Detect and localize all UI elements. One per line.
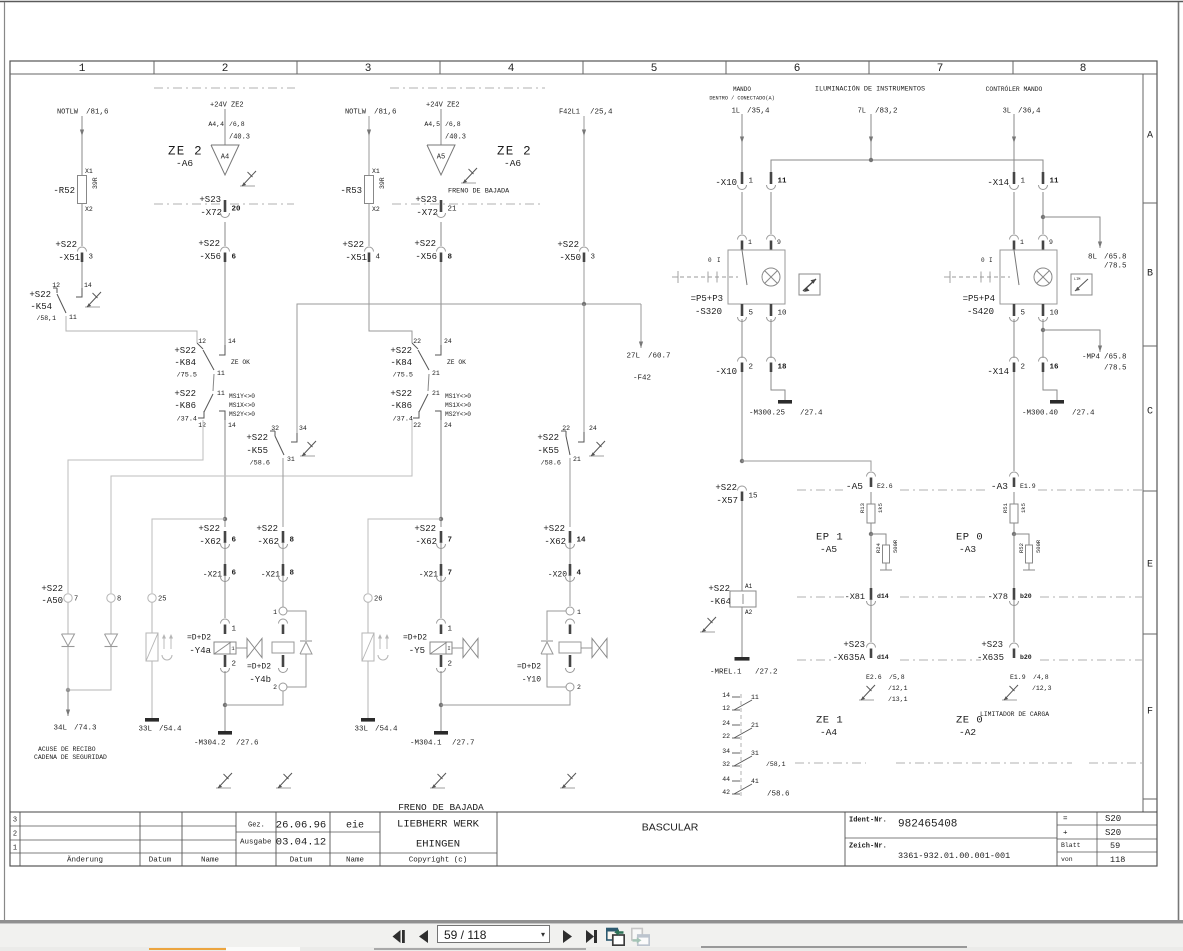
svg-text:E1.9: E1.9 <box>1020 483 1036 490</box>
svg-text:+S22: +S22 <box>246 433 268 443</box>
svg-text:-X21: -X21 <box>419 571 438 580</box>
diode V2 col1 <box>105 634 118 646</box>
svg-text:1: 1 <box>273 609 277 616</box>
svg-text:I: I <box>717 257 721 264</box>
svg-text:/27.2: /27.2 <box>755 669 778 677</box>
wire socket25 to suppressor <box>151 602 153 633</box>
wire 7L to bus160 <box>870 114 872 160</box>
svg-text:+S22: +S22 <box>198 239 220 249</box>
svg-text:+24V ZE2: +24V ZE2 <box>210 101 244 109</box>
svg-text:500R: 500R <box>892 539 899 553</box>
svg-text:/81,6: /81,6 <box>86 109 109 117</box>
wire col5 X62-X20 <box>569 542 571 564</box>
svg-text:/83,2: /83,2 <box>875 108 898 116</box>
svg-text:-X635A: -X635A <box>833 653 866 663</box>
svg-text:Zeich-Nr.: Zeich-Nr. <box>849 842 887 850</box>
svg-text:A2: A2 <box>745 609 753 616</box>
wire col4 X72 to X56 <box>440 222 442 246</box>
svg-text:9: 9 <box>777 239 781 246</box>
svg-text:-K64: -K64 <box>709 597 731 607</box>
svg-text:E: E <box>1147 559 1153 570</box>
svg-text:21: 21 <box>751 722 759 729</box>
title block verticals <box>19 812 21 866</box>
svg-text:-A6: -A6 <box>504 158 521 169</box>
svg-text:+S22: +S22 <box>55 240 77 250</box>
svg-text:R52: R52 <box>1018 543 1025 553</box>
svg-text:41: 41 <box>751 778 759 785</box>
svg-text:b20: b20 <box>1020 654 1032 661</box>
svg-text:14: 14 <box>722 692 730 699</box>
svg-text:21: 21 <box>432 390 440 397</box>
svg-text:5: 5 <box>651 63 658 75</box>
svg-text:31: 31 <box>287 456 295 463</box>
svg-text:-A3: -A3 <box>959 544 976 555</box>
svg-text:5: 5 <box>749 310 754 318</box>
release symbol bottom col4 <box>430 787 445 789</box>
wire S320-5 to X10-2 <box>741 319 743 358</box>
svg-text:1: 1 <box>79 63 86 75</box>
svg-text:34: 34 <box>299 425 307 432</box>
svg-text:Name: Name <box>201 857 219 865</box>
diode loop Y10 <box>547 611 566 640</box>
svg-text:ZE OK: ZE OK <box>447 359 466 366</box>
svg-text:2: 2 <box>232 661 237 669</box>
svg-text:33L: 33L <box>138 726 152 734</box>
resistor R24 branch <box>871 534 886 545</box>
svg-text:/12,1: /12,1 <box>888 685 908 692</box>
wire X81 to X635A <box>870 599 872 642</box>
wire X14-11 to S420 <box>1042 192 1044 234</box>
lamp in S420 <box>1034 268 1052 286</box>
svg-text:-MREL.1: -MREL.1 <box>710 669 742 677</box>
valve symbol Y5 <box>452 647 463 649</box>
svg-text:A: A <box>1147 130 1153 141</box>
svg-text:7: 7 <box>937 63 944 75</box>
svg-text:-K86: -K86 <box>390 401 412 411</box>
wire K54 pin11 to K84 col2 <box>66 316 197 343</box>
wire col2 X72 to X56 <box>224 222 226 246</box>
svg-text:24: 24 <box>589 425 597 432</box>
svg-text:/12,3: /12,3 <box>1032 685 1052 692</box>
svg-text:/65.8: /65.8 <box>1104 354 1127 362</box>
svg-text:+S23: +S23 <box>843 640 865 650</box>
ground 33L col2 <box>145 718 159 722</box>
svg-text:/74.3: /74.3 <box>74 725 97 733</box>
valve Y10 socket 1 <box>566 607 574 615</box>
svg-text:21: 21 <box>432 370 440 377</box>
svg-text:LIEBHERR WERK: LIEBHERR WERK <box>397 819 480 831</box>
svg-text:18: 18 <box>778 364 788 372</box>
svg-text:A4: A4 <box>221 153 229 161</box>
svg-text:2: 2 <box>1021 364 1026 372</box>
svg-text:+S22: +S22 <box>174 346 196 356</box>
svg-text:Gez.: Gez. <box>248 821 265 829</box>
svg-text:12: 12 <box>198 338 206 345</box>
svg-text:34L: 34L <box>53 725 67 733</box>
wire junction to circle25 <box>152 519 225 593</box>
svg-text:EP 0: EP 0 <box>956 532 983 544</box>
svg-text:-Y5: -Y5 <box>409 646 425 656</box>
release symbol bottom col2 <box>216 787 231 789</box>
svg-text:Datum: Datum <box>149 857 172 865</box>
svg-text:7: 7 <box>74 595 78 603</box>
bus wire y304 <box>297 304 641 433</box>
svg-text:-M300.25: -M300.25 <box>749 410 786 418</box>
svg-text:A5: A5 <box>437 153 445 161</box>
svg-text:EHINGEN: EHINGEN <box>416 839 460 851</box>
wire col1 top <box>81 116 83 175</box>
svg-text:1k5: 1k5 <box>877 503 884 513</box>
svg-text:LIMITADOR DE CARGA: LIMITADOR DE CARGA <box>980 711 1049 718</box>
svg-text:R13: R13 <box>859 503 866 513</box>
svg-text:+24V ZE2: +24V ZE2 <box>426 101 460 109</box>
svg-text:E2.6: E2.6 <box>877 483 893 490</box>
title block rows left <box>10 825 236 827</box>
wire col3 X21 to Y4b <box>282 575 284 607</box>
svg-text:3: 3 <box>13 816 17 824</box>
ZE1 boundary dashdot row4 <box>795 762 866 764</box>
svg-text:=P5+P4: =P5+P4 <box>963 294 995 304</box>
wire col5 X50 to bus <box>583 262 585 304</box>
wire A50-7 to diode <box>67 602 69 634</box>
resistor R52b branch <box>1014 534 1029 545</box>
svg-text:Ausgabe: Ausgabe <box>240 839 272 847</box>
svg-text:Name: Name <box>346 857 364 865</box>
ground MREL.1 <box>735 657 750 661</box>
svg-text:X2: X2 <box>85 206 93 213</box>
svg-text:1k5: 1k5 <box>1020 503 1027 513</box>
svg-text:E1.9: E1.9 <box>1010 674 1026 681</box>
svg-text:/37.4: /37.4 <box>393 415 413 423</box>
svg-text:10: 10 <box>1050 310 1060 318</box>
svg-text:1: 1 <box>748 239 752 246</box>
svg-text:6: 6 <box>232 254 237 262</box>
release symbol bottom col3 <box>276 787 291 789</box>
connector S320 pin 5 <box>741 304 744 316</box>
svg-text:11: 11 <box>217 370 225 377</box>
wire K86 col2 pin12 to A50 <box>68 420 203 593</box>
svg-text:/54.4: /54.4 <box>375 726 398 734</box>
svg-text:MS1Y<>0: MS1Y<>0 <box>445 393 471 400</box>
svg-text:-A2: -A2 <box>959 727 976 738</box>
svg-text:/58.6: /58.6 <box>767 791 790 799</box>
svg-text:14: 14 <box>228 422 236 429</box>
svg-text:-A3: -A3 <box>991 481 1008 492</box>
frame column ticks <box>153 61 155 74</box>
wire X14-1 to S420 <box>1013 192 1015 234</box>
svg-text:9: 9 <box>1049 239 1053 246</box>
svg-text:8: 8 <box>117 595 121 603</box>
svg-text:-X62: -X62 <box>257 537 279 547</box>
svg-text:-Y4b: -Y4b <box>249 675 271 685</box>
svg-text:/65.8: /65.8 <box>1104 254 1127 262</box>
wire K55 col2 to X62 col3 <box>282 458 284 527</box>
connector X10 pin 11 <box>770 172 773 184</box>
wire col3 X62-X21 <box>282 542 284 564</box>
svg-text:6: 6 <box>794 63 801 75</box>
svg-text:59: 59 <box>1110 841 1120 851</box>
release symbol EP1 <box>859 699 874 701</box>
svg-text:ZE OK: ZE OK <box>231 359 250 366</box>
svg-text:FRENO DE BAJADA: FRENO DE BAJADA <box>398 802 484 813</box>
svg-text:03.04.12: 03.04.12 <box>276 837 326 849</box>
svg-text:CONTRÓLER MANDO: CONTRÓLER MANDO <box>986 84 1043 93</box>
svg-text:8: 8 <box>290 570 295 578</box>
svg-text:39R: 39R <box>92 177 99 189</box>
svg-text:MS1X<>0: MS1X<>0 <box>445 402 471 409</box>
svg-text:1L: 1L <box>732 107 740 115</box>
junction EP1 R24 <box>869 532 873 536</box>
svg-text:11: 11 <box>751 694 759 701</box>
ZE2 boundary dashdot mid col4 <box>392 203 544 205</box>
wire col2 X21 to Y4a <box>224 575 226 618</box>
indicator symbol S420 <box>1071 274 1092 295</box>
EP boundary dashdot row2 <box>797 596 845 598</box>
svg-text:+S22: +S22 <box>715 483 737 493</box>
ZE2 boundary dashdot top col2 <box>154 87 295 89</box>
svg-text:d14: d14 <box>877 593 889 600</box>
svg-text:-X50: -X50 <box>559 253 581 263</box>
svg-text:/75.5: /75.5 <box>393 371 413 379</box>
svg-text:22: 22 <box>722 733 730 740</box>
wire col3 X51-4 to K84 col4 <box>369 262 412 343</box>
wire Y5 to ground <box>440 671 442 731</box>
svg-text:8L: 8L <box>1088 254 1098 262</box>
svg-text:ZE 1: ZE 1 <box>816 715 843 727</box>
svg-text:eie: eie <box>346 819 364 831</box>
svg-text:15: 15 <box>749 493 759 501</box>
svg-text:/81,6: /81,6 <box>374 109 397 117</box>
EP boundary dashdot row1 <box>797 489 843 491</box>
svg-text:/58.6: /58.6 <box>541 459 561 467</box>
svg-text:25: 25 <box>158 595 166 603</box>
junction col2 X62 <box>223 517 227 521</box>
svg-text:-X10: -X10 <box>715 367 737 377</box>
wire col5 X20 to Y10 <box>569 575 571 606</box>
svg-text:ZE 2: ZE 2 <box>497 144 532 158</box>
svg-text:DENTRO / CONECTADO(A): DENTRO / CONECTADO(A) <box>709 95 774 101</box>
svg-text:14: 14 <box>84 282 92 289</box>
svg-text:22: 22 <box>413 422 421 429</box>
next page button <box>561 929 574 944</box>
svg-text:2: 2 <box>13 830 17 838</box>
svg-text:-A6: -A6 <box>176 158 193 169</box>
svg-text:-K55: -K55 <box>537 446 559 456</box>
svg-text:=D+D2: =D+D2 <box>187 634 211 643</box>
svg-text:=D+D2: =D+D2 <box>247 663 271 672</box>
svg-text:-X62: -X62 <box>544 537 566 547</box>
svg-text:-X62: -X62 <box>199 537 221 547</box>
svg-text:Ident-Nr.: Ident-Nr. <box>849 816 887 824</box>
connector S420 pin 10 <box>1042 304 1045 316</box>
svg-text:33L: 33L <box>354 726 368 734</box>
previous page button <box>417 929 430 944</box>
connector Y10 top <box>566 619 575 624</box>
svg-text:7: 7 <box>448 537 453 545</box>
wire col8 X14-2 to A3 <box>1013 372 1015 471</box>
wire col2 K86 to X62 <box>224 420 226 527</box>
valve Y10 socket 2 <box>566 683 574 691</box>
frame row ticks <box>1143 202 1157 204</box>
wire col5 top <box>583 116 585 246</box>
svg-text:-MP4: -MP4 <box>1082 354 1101 362</box>
svg-text:b20: b20 <box>1020 593 1032 600</box>
amplifier A4 <box>211 145 239 175</box>
wire suppressor to ground 33L col4 <box>367 661 369 718</box>
svg-text:14: 14 <box>577 537 587 545</box>
wire col2 X56 to K84 <box>224 262 226 345</box>
connector S320 pin 10 <box>770 304 773 316</box>
wire Y4a to ground <box>224 671 226 731</box>
svg-text:/27.6: /27.6 <box>236 740 259 748</box>
svg-text:+S22: +S22 <box>29 290 51 300</box>
svg-text:-K55: -K55 <box>246 446 268 456</box>
svg-text:4: 4 <box>376 254 381 262</box>
wire col1 X51 to K54 <box>81 262 83 288</box>
svg-text:31: 31 <box>751 750 759 757</box>
connector Y4b bottom <box>282 655 285 667</box>
junction col4 X62 <box>439 517 443 521</box>
wire junction to circle26 <box>368 519 441 593</box>
wire X10-2 down to junction <box>741 372 743 461</box>
svg-text:-X72: -X72 <box>416 208 438 218</box>
wire S420-10 to conn16 <box>1042 319 1044 358</box>
svg-text:/35,4: /35,4 <box>747 108 770 116</box>
svg-text:I: I <box>447 645 450 652</box>
svg-text:8: 8 <box>448 254 453 262</box>
wire K55 col5 to X62 <box>569 458 571 527</box>
svg-text:21: 21 <box>573 456 581 463</box>
svg-text:Datum: Datum <box>290 857 313 865</box>
svg-text:X1: X1 <box>85 168 93 175</box>
svg-text:-R52: -R52 <box>53 186 75 196</box>
svg-text:-A5: -A5 <box>820 544 837 555</box>
svg-text:-X51: -X51 <box>345 253 367 263</box>
svg-text:ZE 2: ZE 2 <box>168 144 203 158</box>
svg-text:10: 10 <box>778 310 788 318</box>
svg-text:22: 22 <box>413 338 421 345</box>
last page button <box>584 929 600 944</box>
wire Y10 to ground rail <box>441 691 570 705</box>
socket 25 <box>148 594 156 602</box>
svg-text:6: 6 <box>232 537 237 545</box>
svg-text:/25,4: /25,4 <box>590 109 613 117</box>
svg-text:-X62: -X62 <box>415 537 437 547</box>
svg-text:3: 3 <box>365 63 372 75</box>
svg-text:5: 5 <box>1021 310 1026 318</box>
svg-text:X2: X2 <box>372 206 380 213</box>
svg-text:ILUMINACIÓN DE INSTRUMENTOS: ILUMINACIÓN DE INSTRUMENTOS <box>815 83 925 93</box>
valve Y4b socket 1 <box>279 607 287 615</box>
svg-text:-Y4a: -Y4a <box>189 646 211 656</box>
svg-text:d14: d14 <box>877 654 889 661</box>
svg-text:S20: S20 <box>1105 814 1121 824</box>
switch S320 <box>738 235 747 240</box>
svg-text:8: 8 <box>290 537 295 545</box>
release symbol EP0 <box>1002 699 1017 701</box>
ground 33L col4 <box>361 718 375 722</box>
next view button (disabled) <box>631 927 650 946</box>
svg-text:=: = <box>1063 816 1068 824</box>
svg-text:/58.6: /58.6 <box>250 459 270 467</box>
svg-text:LIM: LIM <box>1074 278 1080 282</box>
frame header band line <box>10 73 1157 75</box>
wire EP1 to X81 <box>870 534 872 588</box>
svg-text:11: 11 <box>1050 178 1060 186</box>
suppressor A51 <box>146 633 158 661</box>
title block sheet table <box>1057 824 1157 826</box>
svg-text:2: 2 <box>448 661 453 669</box>
previous view button <box>606 927 625 946</box>
branch 8L <box>1041 215 1045 219</box>
svg-text:3: 3 <box>89 254 94 262</box>
valve coil Y5 <box>437 619 446 624</box>
wire col4 X21 to Y5 <box>440 575 442 618</box>
svg-text:2: 2 <box>222 63 229 75</box>
wire X10-1 to S320 <box>741 192 743 234</box>
release symbol A4 <box>240 185 255 187</box>
wire col2 top <box>224 109 226 145</box>
svg-text:=D+D2: =D+D2 <box>403 634 427 643</box>
svg-text:24: 24 <box>444 338 452 345</box>
svg-text:+S22: +S22 <box>198 524 220 534</box>
valve symbol Y4a <box>236 647 247 649</box>
connector Y10 bottom <box>569 655 572 667</box>
svg-text:/6,8: /6,8 <box>229 121 245 128</box>
wire A50-8 to diode <box>110 602 112 634</box>
svg-text:/58,1: /58,1 <box>766 761 786 768</box>
svg-text:/40.3: /40.3 <box>445 133 466 141</box>
svg-text:21: 21 <box>448 206 458 214</box>
svg-text:/5,8: /5,8 <box>889 674 905 681</box>
branch MP4 <box>1041 328 1045 332</box>
resistor R51 <box>1010 504 1018 523</box>
svg-text:MS2Y<>0: MS2Y<>0 <box>445 411 471 418</box>
svg-text:I: I <box>989 257 993 264</box>
svg-text:8: 8 <box>1080 63 1087 75</box>
svg-text:500R: 500R <box>1035 539 1042 553</box>
connector Y4b top <box>279 619 288 624</box>
contact K86 col4 <box>428 374 429 391</box>
wire branch F42 <box>640 304 642 348</box>
amplifier A5 <box>427 145 455 175</box>
contact K86 col2 <box>213 374 214 391</box>
page number box <box>437 925 550 943</box>
wire col4 K86 to X62 <box>440 420 442 527</box>
wire suppressor to ground 33L <box>151 661 153 718</box>
svg-text:/13,1: /13,1 <box>888 696 908 703</box>
svg-text:A4,4: A4,4 <box>208 121 224 128</box>
svg-text:/27.4: /27.4 <box>800 410 823 418</box>
svg-text:-M300.40: -M300.40 <box>1022 410 1059 418</box>
diode V1 col1 <box>62 634 75 646</box>
valve coil Y4a <box>221 619 230 624</box>
resistor R13 <box>867 504 875 523</box>
wire X10-11 to S320 <box>770 192 772 234</box>
ground M300.25 <box>778 400 792 404</box>
svg-text:+S23: +S23 <box>199 195 221 205</box>
svg-text:/58,1: /58,1 <box>36 315 56 322</box>
svg-text:MANDO: MANDO <box>733 86 751 93</box>
svg-text:39R: 39R <box>379 177 386 189</box>
ZE2 boundary dashdot mid col2 <box>154 203 294 205</box>
ground M300.40 <box>1050 400 1064 404</box>
svg-text:+S22: +S22 <box>414 239 436 249</box>
release symbol K55 col2 <box>300 455 315 457</box>
svg-text:+S22: +S22 <box>414 524 436 534</box>
valve Y4b socket 2 <box>279 683 287 691</box>
svg-text:-A5: -A5 <box>846 481 863 492</box>
